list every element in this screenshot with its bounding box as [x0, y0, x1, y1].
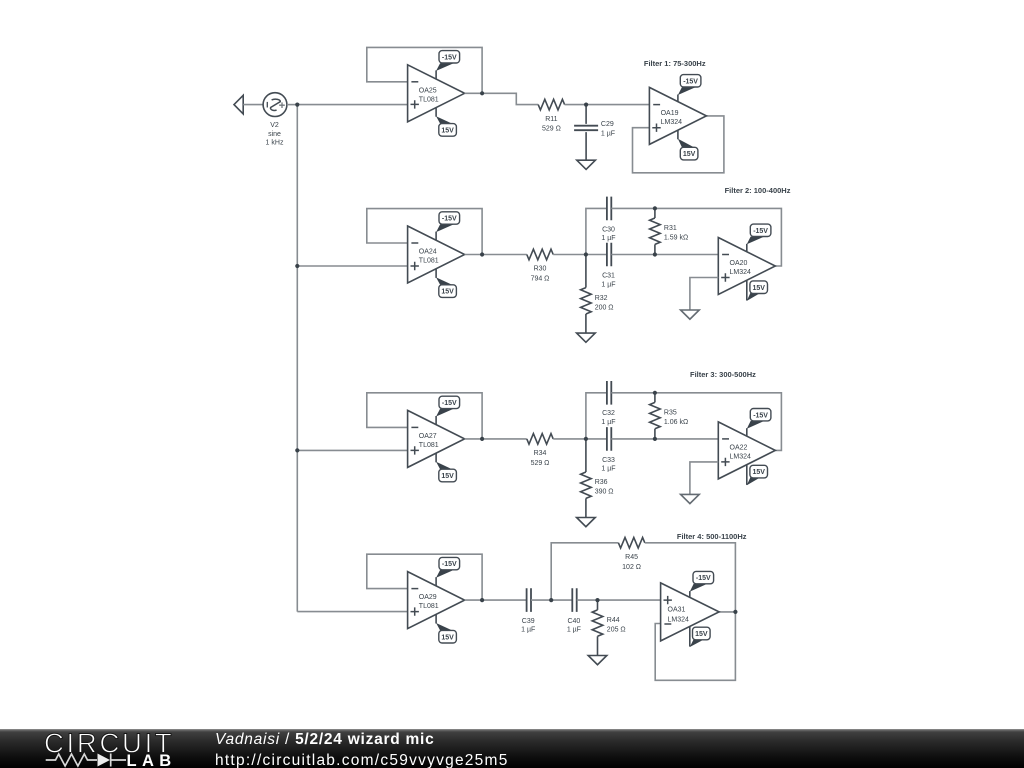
svg-text:OA20: OA20: [730, 260, 748, 267]
ground (input, left of V2): [234, 95, 243, 114]
svg-text:Filter 3: 300-500Hz: Filter 3: 300-500Hz: [690, 370, 756, 379]
capacitor C39: [527, 588, 531, 612]
node: OA29 output junction: [480, 598, 484, 602]
svg-text:200 Ω: 200 Ω: [595, 304, 614, 311]
op-amp OA19: [649, 87, 706, 144]
op-amp OA31 feedback wire (output to - input): [655, 612, 735, 680]
svg-text:R45: R45: [625, 554, 638, 561]
svg-text:Filter 1: 75-300Hz: Filter 1: 75-300Hz: [644, 59, 706, 68]
svg-text:OA31: OA31: [668, 607, 686, 614]
svg-text:R35: R35: [664, 410, 677, 417]
resistor R31: [650, 208, 661, 254]
resistor R32: [581, 255, 592, 334]
svg-text:OA25: OA25: [419, 87, 437, 94]
label OA20 LM324: [730, 260, 752, 276]
wire OA24 output to R30: [465, 254, 527, 256]
op-amp OA20: [718, 238, 775, 295]
CircuitLab logo: [44, 728, 177, 768]
label R45 102 ohm: [622, 554, 641, 571]
power flag -15V (OA20): [747, 224, 771, 252]
label OA22 LM324: [730, 444, 752, 460]
wire C30 to node C: [611, 208, 781, 266]
svg-text:-15V: -15V: [442, 216, 457, 223]
capacitor C40: [572, 588, 576, 612]
wire OA27 output to R34: [465, 438, 527, 440]
svg-text:-15V: -15V: [753, 412, 768, 419]
power flag 15V (OA29): [436, 614, 456, 643]
wire: [243, 104, 263, 106]
svg-text:Filter 4: 500-1100Hz: Filter 4: 500-1100Hz: [677, 532, 747, 541]
op-amp OA25 feedback wire: [367, 47, 482, 93]
svg-text:102 Ω: 102 Ω: [622, 564, 641, 571]
svg-text:R34: R34: [534, 450, 547, 457]
power flag -15V (OA31): [690, 571, 714, 597]
wire OA29 output to C39: [465, 599, 527, 601]
svg-text:1 µF: 1 µF: [601, 235, 615, 242]
wire C31 to OA20 - input: [611, 254, 718, 256]
power flag 15V (OA24): [436, 269, 456, 298]
svg-text:Filter 2: 100-400Hz: Filter 2: 100-400Hz: [725, 186, 791, 195]
op-amp OA25: [408, 65, 465, 122]
wire C32 to node F: [611, 393, 781, 451]
wire C39 to C40: [531, 599, 572, 601]
wire: bus to OA27 + input: [297, 449, 407, 451]
node E (R34/C32/C33/R36): [584, 437, 588, 441]
ground (OA20 +): [681, 310, 700, 319]
ground (R32): [577, 333, 596, 342]
svg-text:15V: 15V: [441, 289, 454, 296]
svg-text:1.59 kΩ: 1.59 kΩ: [664, 235, 688, 242]
power flag -15V (OA27): [436, 396, 460, 425]
wire R34 to node: [553, 438, 607, 440]
resistor R45: [618, 538, 644, 549]
svg-text:-15V: -15V: [442, 54, 457, 61]
label R44 205 ohm: [607, 617, 626, 634]
label R32 200 ohm: [595, 295, 614, 312]
ground (R44): [588, 656, 607, 665]
svg-text:1 µF: 1 µF: [601, 281, 615, 288]
label OA31 LM324: [668, 607, 690, 624]
node: OA25 output junction: [480, 91, 484, 95]
svg-text:15V: 15V: [752, 285, 765, 292]
op-amp OA22: [718, 422, 775, 479]
svg-text:15V: 15V: [441, 634, 454, 641]
svg-text:529 Ω: 529 Ω: [531, 460, 550, 467]
svg-text:390 Ω: 390 Ω: [595, 489, 614, 496]
svg-text:1 µF: 1 µF: [601, 130, 615, 137]
capacitor C30: [607, 197, 611, 221]
svg-text:15V: 15V: [683, 151, 696, 158]
op-amp OA24 feedback wire: [367, 209, 482, 255]
power flag -15V (OA22): [747, 409, 771, 437]
svg-text:C31: C31: [602, 273, 615, 280]
power flag -15V (OA25): [436, 51, 460, 80]
svg-text:1 µF: 1 µF: [521, 627, 535, 634]
wire C33 to OA22 - input: [611, 438, 718, 440]
svg-text:OA24: OA24: [419, 249, 437, 256]
wire node B up to C30 branch: [586, 208, 607, 254]
svg-text:R32: R32: [595, 295, 608, 302]
svg-text:LM324: LM324: [730, 269, 752, 276]
svg-text:sine: sine: [268, 131, 281, 138]
svg-text:C39: C39: [522, 618, 535, 625]
op-amp OA31: [661, 583, 720, 641]
power flag 15V (OA19): [678, 130, 698, 160]
capacitor C33: [607, 427, 611, 451]
op-amp OA19 feedback wire: [633, 116, 724, 173]
node: OA31 output junction: [733, 610, 737, 614]
label C29 1uF: [601, 121, 615, 137]
resistor R11: [538, 99, 564, 110]
power flag 15V (OA25): [436, 108, 456, 137]
svg-text:V2: V2: [270, 122, 279, 129]
wire node E up to C32 branch: [586, 393, 607, 439]
svg-text:15V: 15V: [441, 128, 454, 135]
power flag 15V (OA27): [436, 453, 456, 482]
node A (R11/C29/OA19): [584, 103, 588, 107]
svg-text:1 µF: 1 µF: [567, 627, 581, 634]
op-amp OA27: [408, 410, 465, 467]
svg-text:15V: 15V: [441, 473, 454, 480]
capacitor C31: [607, 243, 611, 267]
power flag -15V (OA29): [436, 557, 460, 586]
svg-text:15V: 15V: [752, 469, 765, 476]
power flag 15V (OA31): [690, 626, 710, 647]
power flag 15V (OA20): [747, 280, 768, 301]
node: OA24 output junction: [480, 252, 484, 256]
capacitor C29: [574, 105, 598, 161]
power flag 15V (OA22): [747, 465, 768, 486]
svg-text:-15V: -15V: [442, 561, 457, 568]
svg-text:C32: C32: [602, 410, 615, 417]
svg-text:1.06 kΩ: 1.06 kΩ: [664, 419, 688, 426]
node B (R30/C30/C31/R32): [584, 252, 588, 256]
wire: input bus vertical: [296, 105, 298, 612]
svg-text:OA22: OA22: [730, 444, 748, 451]
svg-text:TL081: TL081: [419, 603, 439, 610]
svg-text:TL081: TL081: [419, 96, 439, 103]
label R30 794 ohm: [531, 266, 550, 283]
label OA24 TL081: [419, 249, 439, 265]
label OA29 TL081: [419, 594, 439, 610]
node: bus junction filter 1: [295, 103, 299, 107]
wire R45 to OA31 output loop: [645, 543, 736, 612]
svg-text:R30: R30: [534, 266, 547, 273]
node C (C30/R31 top): [653, 206, 657, 210]
svg-text:TL081: TL081: [419, 442, 439, 449]
label OA19 LM324: [661, 110, 683, 126]
wire R30 to node: [553, 254, 607, 256]
svg-text:C40: C40: [567, 618, 580, 625]
svg-text:LM324: LM324: [661, 119, 683, 126]
label R35 1.06k: [664, 410, 688, 427]
wire OA22 + input to ground: [690, 462, 718, 495]
label R36 390 ohm: [595, 479, 614, 496]
svg-text:R36: R36: [595, 479, 608, 486]
svg-text:C29: C29: [601, 121, 614, 128]
label R34 529 ohm: [531, 450, 550, 467]
wire V2 to bus: [287, 104, 297, 106]
wire: bus corner to OA29 + input: [297, 611, 407, 613]
label R11 529 ohm: [542, 116, 561, 133]
node I (C40/R44): [595, 598, 599, 602]
svg-text:1 µF: 1 µF: [601, 466, 615, 473]
wire: bus to OA24 + input: [297, 265, 407, 267]
svg-text:R11: R11: [545, 116, 557, 123]
node G (R35 bottom on main wire): [653, 437, 657, 441]
resistor R35: [650, 393, 661, 439]
label C32 1uF: [601, 410, 615, 426]
svg-text:15V: 15V: [695, 631, 708, 638]
svg-text:-15V: -15V: [696, 575, 711, 582]
svg-text:-15V: -15V: [753, 228, 768, 235]
svg-text:-15V: -15V: [442, 400, 457, 407]
op-amp OA29 feedback wire: [367, 554, 482, 600]
node D (R31 bottom on main wire): [653, 252, 657, 256]
wire: bus to OA25 + input: [297, 104, 407, 106]
svg-text:1 kHz: 1 kHz: [266, 140, 284, 147]
wire OA20 + input to ground: [690, 278, 718, 311]
label C30 1uF: [601, 226, 615, 242]
wire OA25 output with jog down: [465, 93, 539, 104]
svg-text:TL081: TL081: [419, 258, 439, 265]
node H (C39/R45 branch): [549, 598, 553, 602]
label V2: [266, 122, 284, 147]
resistor R34: [527, 434, 553, 445]
svg-text:205 Ω: 205 Ω: [607, 627, 626, 634]
ground (R36): [577, 518, 596, 527]
svg-text:OA29: OA29: [419, 594, 437, 601]
svg-text:R31: R31: [664, 225, 677, 232]
svg-text:C33: C33: [602, 457, 615, 464]
svg-text:LM324: LM324: [668, 616, 690, 623]
svg-text:C30: C30: [602, 226, 615, 233]
op-amp OA29: [408, 572, 465, 629]
resistor R30: [527, 249, 553, 260]
resistor R36: [581, 439, 592, 518]
op-amp OA24: [408, 226, 465, 283]
svg-text:R44: R44: [607, 617, 620, 624]
ground (OA22 +): [681, 494, 700, 503]
label OA27 TL081: [419, 433, 439, 449]
svg-text:OA19: OA19: [661, 110, 679, 117]
capacitor C32: [607, 381, 611, 405]
ground (C29): [577, 160, 596, 169]
svg-text:1 µF: 1 µF: [601, 419, 615, 426]
label C39 1uF: [521, 618, 535, 634]
svg-text:OA27: OA27: [419, 433, 437, 440]
node: OA27 output junction: [480, 437, 484, 441]
svg-text:794 Ω: 794 Ω: [531, 276, 550, 283]
label C40 1uF: [567, 618, 581, 634]
node F (C32/R35 top): [653, 391, 657, 395]
label C31 1uF: [601, 273, 615, 289]
resistor R44: [592, 600, 603, 655]
op-amp OA27 feedback wire: [367, 393, 482, 439]
power flag -15V (OA19): [678, 75, 701, 102]
power flag -15V (OA24): [436, 212, 460, 241]
svg-text:LM324: LM324: [730, 454, 752, 461]
voltage source V2: [263, 93, 287, 117]
wire R11 to node: [565, 104, 650, 106]
svg-text:-15V: -15V: [683, 78, 698, 85]
wire C40 to OA31 + input: [577, 599, 661, 601]
label C33 1uF: [601, 457, 615, 473]
wire node H up to R45: [551, 543, 618, 600]
label R31 1.59k: [664, 225, 688, 242]
label OA25 TL081: [419, 87, 439, 103]
node: bus junction filter 2: [295, 264, 299, 268]
svg-text:529 Ω: 529 Ω: [542, 126, 561, 133]
node: bus junction filter 3: [295, 448, 299, 452]
